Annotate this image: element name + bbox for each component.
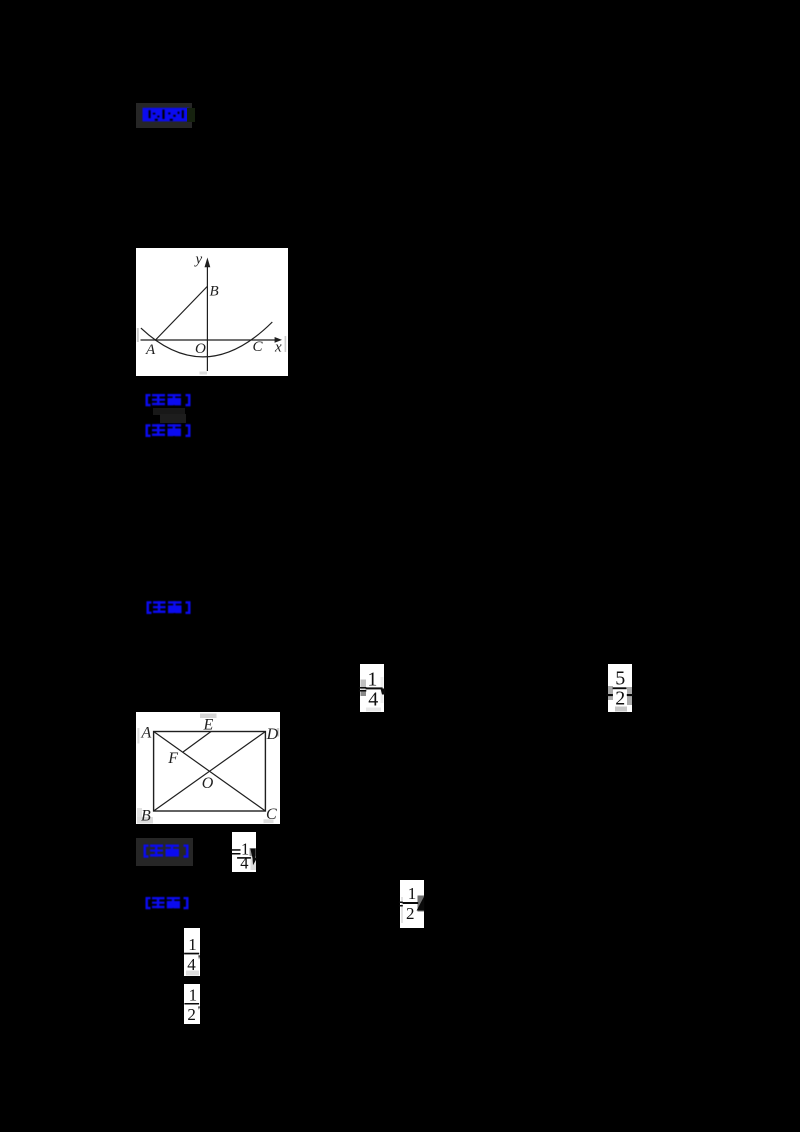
x-axis (141, 339, 277, 341)
fraction image 1/2 (margin) (182, 983, 203, 1025)
svg-text:2: 2 (406, 904, 415, 923)
svg-text:A: A (145, 342, 156, 358)
dark residual glyph after label 1 (187, 108, 195, 122)
blue label 4 (145, 600, 192, 616)
svg-text:x: x (274, 339, 282, 355)
svg-text:4: 4 (368, 689, 378, 711)
fraction bar (613, 687, 627, 689)
svg-text:D: D (266, 726, 279, 743)
rectangle ABCD (154, 732, 266, 812)
fraction bar (184, 953, 199, 955)
gray artifact above E (200, 714, 217, 719)
blue label 6 (144, 896, 190, 911)
svg-text:2: 2 (615, 688, 625, 710)
x-axis arrowhead (275, 337, 282, 343)
svg-text:O: O (202, 775, 214, 792)
apostrophe mark (198, 955, 200, 959)
fraction image 1/4 (margin) (182, 927, 203, 977)
equals sign (399, 902, 403, 904)
svg-text:B: B (141, 808, 151, 824)
svg-text:C: C (253, 339, 264, 355)
svg-text:4: 4 (187, 955, 196, 974)
svg-text:E: E (203, 716, 214, 733)
trailing comma mark (250, 849, 257, 866)
gray artifact right of D (277, 728, 279, 737)
fraction bar (237, 857, 251, 859)
figure 1: parabola graph (136, 248, 288, 376)
fraction bar (366, 687, 383, 689)
svg-text:B: B (210, 283, 219, 299)
edge artifact right (285, 336, 287, 352)
trailing mark (bold comma) (417, 896, 425, 910)
fraction bar (403, 902, 419, 904)
edge artifact left (137, 328, 139, 342)
equals sign (359, 687, 367, 689)
fraction image =1/4 (first) (356, 663, 386, 714)
blue label 2 (144, 393, 192, 408)
gray artifact bottom-left corner (137, 808, 142, 823)
line AB (155, 287, 207, 341)
svg-text:5: 5 (615, 668, 625, 690)
fraction bar (184, 1003, 199, 1005)
trailing comma mark (381, 689, 386, 695)
side dashes (607, 694, 613, 696)
svg-text:4: 4 (240, 854, 248, 873)
fraction image =1/2 (396, 879, 426, 930)
fraction image =1/4 (second, smaller) (228, 831, 260, 873)
svg-text:C: C (266, 806, 277, 823)
gray artifact below C (264, 819, 274, 823)
svg-text:A: A (141, 724, 152, 741)
y-axis arrowhead (205, 258, 211, 268)
highlight box behind answer label 1 (136, 103, 192, 128)
segment EF (183, 732, 211, 753)
y-axis (206, 265, 208, 371)
figure 2: rectangle ABCD (136, 712, 280, 824)
svg-text:1: 1 (189, 986, 198, 1005)
parabola (141, 322, 272, 357)
faint residual marks between labels (153, 408, 185, 415)
equals sign (232, 849, 241, 851)
blue label 3 (144, 423, 192, 439)
svg-text:2: 2 (187, 1005, 196, 1024)
svg-text:1: 1 (408, 884, 417, 903)
svg-text:1: 1 (188, 935, 197, 954)
edge artifact bottom (200, 372, 208, 375)
svg-text:1: 1 (367, 669, 377, 691)
svg-text:F: F (167, 750, 178, 767)
gray sliver left near A (137, 728, 139, 744)
svg-text:O: O (195, 341, 206, 357)
blue label 5 (142, 843, 190, 860)
svg-text:y: y (194, 251, 203, 267)
apostrophe mark (198, 1007, 200, 1010)
blue label 1 (142, 107, 190, 123)
diagonal AC (154, 732, 266, 812)
highlight box behind answer label 5 (136, 838, 193, 866)
fraction image 5/2 (604, 663, 636, 714)
diagonal BD (154, 732, 266, 812)
